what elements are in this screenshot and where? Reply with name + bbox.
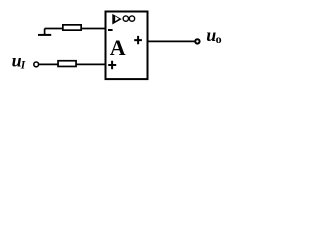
svg-text:o: o	[216, 32, 222, 46]
svg-text:I: I	[20, 60, 26, 72]
svg-text:A: A	[110, 35, 126, 60]
